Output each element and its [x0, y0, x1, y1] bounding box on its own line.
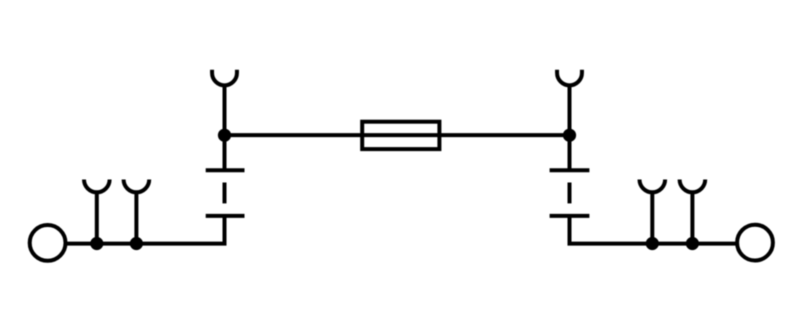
clamp terminal top-left [212, 70, 237, 135]
node bottom-left 1 [90, 237, 103, 250]
clamp terminal top-right [557, 70, 582, 135]
node bottom-right 1 [646, 237, 659, 250]
node junction right [563, 129, 576, 142]
terminal eyelet left [30, 225, 66, 261]
wire left bottom run [66, 216, 225, 244]
node bottom-right 2 [686, 237, 699, 250]
wire right bottom run [570, 216, 738, 244]
terminal eyelet right [737, 225, 773, 261]
fuse F1 [362, 122, 439, 149]
clamp terminal bottom-right 1 [640, 180, 666, 244]
clamp terminal bottom-left 1 [84, 180, 110, 244]
disconnect link right [550, 135, 590, 216]
clamp terminal bottom-right 2 [680, 180, 706, 244]
disconnect link left [206, 135, 245, 216]
node junction left [218, 129, 231, 142]
wire top horizontal bus [225, 133, 570, 137]
node bottom-left 2 [130, 237, 143, 250]
clamp terminal bottom-left 2 [124, 180, 150, 244]
